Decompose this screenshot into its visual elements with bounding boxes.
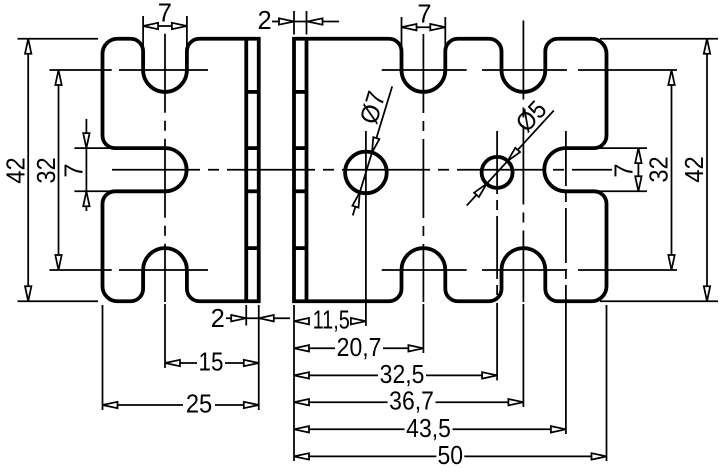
svg-text:25: 25 (186, 391, 212, 419)
svg-text:7: 7 (158, 0, 172, 28)
svg-text:42: 42 (681, 156, 709, 182)
svg-text:32: 32 (33, 157, 61, 183)
svg-text:36,7: 36,7 (389, 388, 434, 416)
svg-text:2: 2 (258, 7, 272, 35)
svg-text:7: 7 (417, 1, 431, 29)
svg-text:32,5: 32,5 (380, 361, 425, 389)
svg-text:7: 7 (60, 163, 88, 177)
svg-text:43,5: 43,5 (406, 415, 451, 443)
svg-text:20,7: 20,7 (337, 334, 382, 362)
svg-text:7: 7 (610, 163, 638, 177)
svg-text:2: 2 (211, 305, 225, 333)
svg-text:11,5: 11,5 (313, 305, 350, 334)
svg-text:15: 15 (199, 348, 224, 377)
svg-text:42: 42 (3, 157, 31, 183)
svg-text:32: 32 (646, 156, 674, 182)
svg-text:50: 50 (438, 442, 464, 469)
